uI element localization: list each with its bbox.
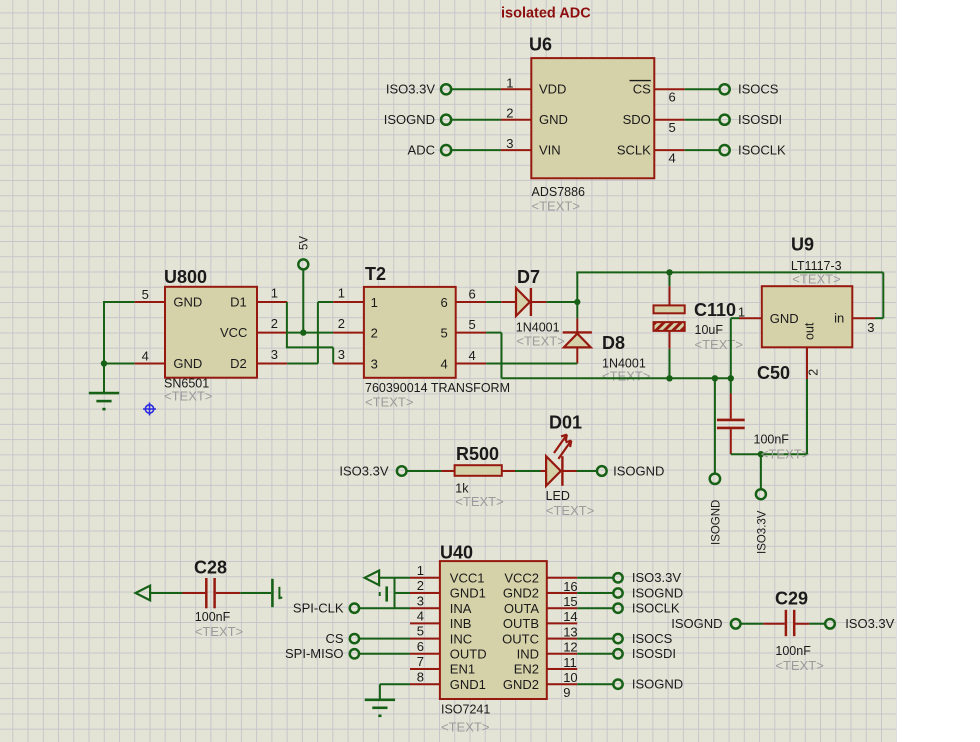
svg-text:1: 1 xyxy=(738,305,745,320)
svg-text:5: 5 xyxy=(440,325,447,340)
svg-text:ISO3.3V: ISO3.3V xyxy=(386,82,435,97)
svg-text:7: 7 xyxy=(417,654,424,669)
svg-text:VCC1: VCC1 xyxy=(450,571,485,586)
svg-text:3: 3 xyxy=(271,347,278,362)
svg-text:1N4001: 1N4001 xyxy=(516,320,560,334)
svg-text:GND1: GND1 xyxy=(450,586,486,601)
svg-text:<TEXT>: <TEXT> xyxy=(602,369,650,384)
svg-text:<TEXT>: <TEXT> xyxy=(516,334,564,349)
svg-text:GND: GND xyxy=(173,295,202,310)
svg-text:3: 3 xyxy=(417,593,424,608)
svg-text:C50: C50 xyxy=(757,363,790,383)
svg-text:C110: C110 xyxy=(694,300,736,320)
svg-text:ADS7886: ADS7886 xyxy=(532,185,586,199)
svg-text:2: 2 xyxy=(417,578,424,593)
svg-text:14: 14 xyxy=(563,609,577,624)
svg-text:16: 16 xyxy=(563,579,577,594)
svg-text:GND: GND xyxy=(173,356,202,371)
svg-text:SCLK: SCLK xyxy=(617,142,651,157)
svg-text:ISO3.3V: ISO3.3V xyxy=(339,463,388,478)
svg-text:5: 5 xyxy=(417,624,424,639)
svg-text:3: 3 xyxy=(338,347,345,362)
svg-text:ISOCS: ISOCS xyxy=(738,82,779,97)
svg-text:CS: CS xyxy=(325,631,343,646)
svg-text:OUTC: OUTC xyxy=(502,631,539,646)
svg-text:INB: INB xyxy=(450,616,472,631)
svg-text:4: 4 xyxy=(469,348,476,363)
svg-text:<TEXT>: <TEXT> xyxy=(775,658,823,673)
svg-text:12: 12 xyxy=(563,640,577,655)
svg-text:10uF: 10uF xyxy=(695,323,724,337)
svg-text:ISO3.3V: ISO3.3V xyxy=(756,510,768,554)
svg-text:D1: D1 xyxy=(230,295,247,310)
svg-text:GND2: GND2 xyxy=(503,586,539,601)
svg-text:ISOGND: ISOGND xyxy=(632,585,683,600)
svg-text:ISOGND: ISOGND xyxy=(671,616,722,631)
svg-text:VDD: VDD xyxy=(539,82,566,97)
svg-text:<TEXT>: <TEXT> xyxy=(761,447,809,462)
svg-text:4: 4 xyxy=(417,609,424,624)
svg-text:ISOGND: ISOGND xyxy=(613,463,664,478)
svg-text:100nF: 100nF xyxy=(775,644,811,658)
svg-text:<TEXT>: <TEXT> xyxy=(792,272,840,287)
svg-text:VCC: VCC xyxy=(220,325,247,340)
svg-text:1: 1 xyxy=(371,295,378,310)
svg-text:6: 6 xyxy=(417,639,424,654)
svg-text:6: 6 xyxy=(469,286,476,301)
svg-text:GND1: GND1 xyxy=(450,677,486,692)
svg-text:SPI-MISO: SPI-MISO xyxy=(285,646,344,661)
svg-text:1: 1 xyxy=(271,286,278,301)
svg-text:D7: D7 xyxy=(517,267,540,287)
svg-text:4: 4 xyxy=(440,356,447,371)
svg-text:CS: CS xyxy=(633,82,651,97)
svg-text:13: 13 xyxy=(563,624,577,639)
svg-text:5: 5 xyxy=(669,120,676,135)
svg-text:2: 2 xyxy=(371,325,378,340)
svg-text:ISOGND: ISOGND xyxy=(632,677,683,692)
svg-text:2: 2 xyxy=(338,316,345,331)
svg-text:11: 11 xyxy=(563,655,577,670)
svg-text:GND: GND xyxy=(539,112,568,127)
svg-text:IND: IND xyxy=(517,647,539,662)
svg-text:in: in xyxy=(834,310,844,325)
svg-text:<TEXT>: <TEXT> xyxy=(546,503,594,518)
svg-text:C29: C29 xyxy=(775,589,808,609)
svg-text:R500: R500 xyxy=(456,444,499,464)
svg-text:<TEXT>: <TEXT> xyxy=(164,389,212,404)
svg-text:ISOCS: ISOCS xyxy=(632,631,673,646)
svg-text:D8: D8 xyxy=(602,333,625,353)
svg-text:ISO3.3V: ISO3.3V xyxy=(845,616,894,631)
svg-text:GND2: GND2 xyxy=(503,677,539,692)
svg-text:9: 9 xyxy=(563,685,570,700)
svg-text:EN2: EN2 xyxy=(514,662,539,677)
svg-text:INA: INA xyxy=(450,601,472,616)
svg-text:<TEXT>: <TEXT> xyxy=(455,494,503,509)
svg-text:T2: T2 xyxy=(365,264,386,284)
svg-text:100nF: 100nF xyxy=(195,610,231,624)
svg-text:ISO7241: ISO7241 xyxy=(441,703,490,717)
svg-text:ISOCLK: ISOCLK xyxy=(632,601,680,616)
svg-text:<TEXT>: <TEXT> xyxy=(441,720,489,735)
svg-text:1: 1 xyxy=(338,286,345,301)
svg-text:5: 5 xyxy=(142,287,149,302)
svg-text:ISOGND: ISOGND xyxy=(710,500,722,545)
svg-text:<TEXT>: <TEXT> xyxy=(195,624,243,639)
svg-text:<TEXT>: <TEXT> xyxy=(532,199,580,214)
svg-text:GND: GND xyxy=(770,311,799,326)
svg-text:U9: U9 xyxy=(791,235,814,255)
svg-text:U800: U800 xyxy=(164,267,207,287)
svg-text:ISOSDI: ISOSDI xyxy=(632,646,676,661)
svg-text:<TEXT>: <TEXT> xyxy=(695,337,743,352)
svg-text:D01: D01 xyxy=(549,412,582,432)
svg-text:EN1: EN1 xyxy=(450,662,475,677)
svg-text:INC: INC xyxy=(450,631,472,646)
svg-text:D2: D2 xyxy=(230,356,247,371)
svg-text:out: out xyxy=(803,322,817,340)
svg-text:OUTA: OUTA xyxy=(504,601,539,616)
svg-text:ISO3.3V: ISO3.3V xyxy=(632,570,681,585)
svg-text:ISOCLK: ISOCLK xyxy=(738,142,786,157)
svg-text:3: 3 xyxy=(371,356,378,371)
svg-text:3: 3 xyxy=(506,136,513,151)
svg-text:5V: 5V xyxy=(299,236,311,250)
svg-text:OUTD: OUTD xyxy=(450,647,487,662)
svg-text:760390014 TRANSFORM: 760390014 TRANSFORM xyxy=(365,381,510,395)
svg-text:ISOSDI: ISOSDI xyxy=(738,112,782,127)
svg-text:VCC2: VCC2 xyxy=(504,571,539,586)
svg-text:3: 3 xyxy=(867,320,874,335)
svg-text:LT1117-3: LT1117-3 xyxy=(791,259,842,273)
svg-text:SDO: SDO xyxy=(623,112,651,127)
svg-text:U40: U40 xyxy=(440,543,473,563)
svg-text:isolated ADC: isolated ADC xyxy=(501,6,591,22)
svg-text:6: 6 xyxy=(440,295,447,310)
svg-text:2: 2 xyxy=(506,106,513,121)
svg-text:4: 4 xyxy=(669,150,676,165)
svg-text:VIN: VIN xyxy=(539,142,561,157)
svg-text:1: 1 xyxy=(417,563,424,578)
svg-text:2: 2 xyxy=(807,369,821,376)
svg-text:2: 2 xyxy=(271,316,278,331)
svg-text:<TEXT>: <TEXT> xyxy=(365,395,413,410)
svg-text:1: 1 xyxy=(506,75,513,90)
svg-text:U6: U6 xyxy=(529,35,552,55)
svg-text:6: 6 xyxy=(669,90,676,105)
svg-text:4: 4 xyxy=(142,349,149,364)
svg-text:10: 10 xyxy=(563,670,577,685)
svg-text:100nF: 100nF xyxy=(754,433,790,447)
svg-text:ADC: ADC xyxy=(408,142,435,157)
svg-text:ISOGND: ISOGND xyxy=(384,112,435,127)
svg-text:OUTB: OUTB xyxy=(503,616,539,631)
svg-text:C28: C28 xyxy=(194,558,227,578)
svg-text:15: 15 xyxy=(563,594,577,609)
svg-text:SPI-CLK: SPI-CLK xyxy=(293,601,344,616)
svg-text:5: 5 xyxy=(469,317,476,332)
svg-text:LED: LED xyxy=(546,489,570,503)
svg-text:8: 8 xyxy=(417,669,424,684)
